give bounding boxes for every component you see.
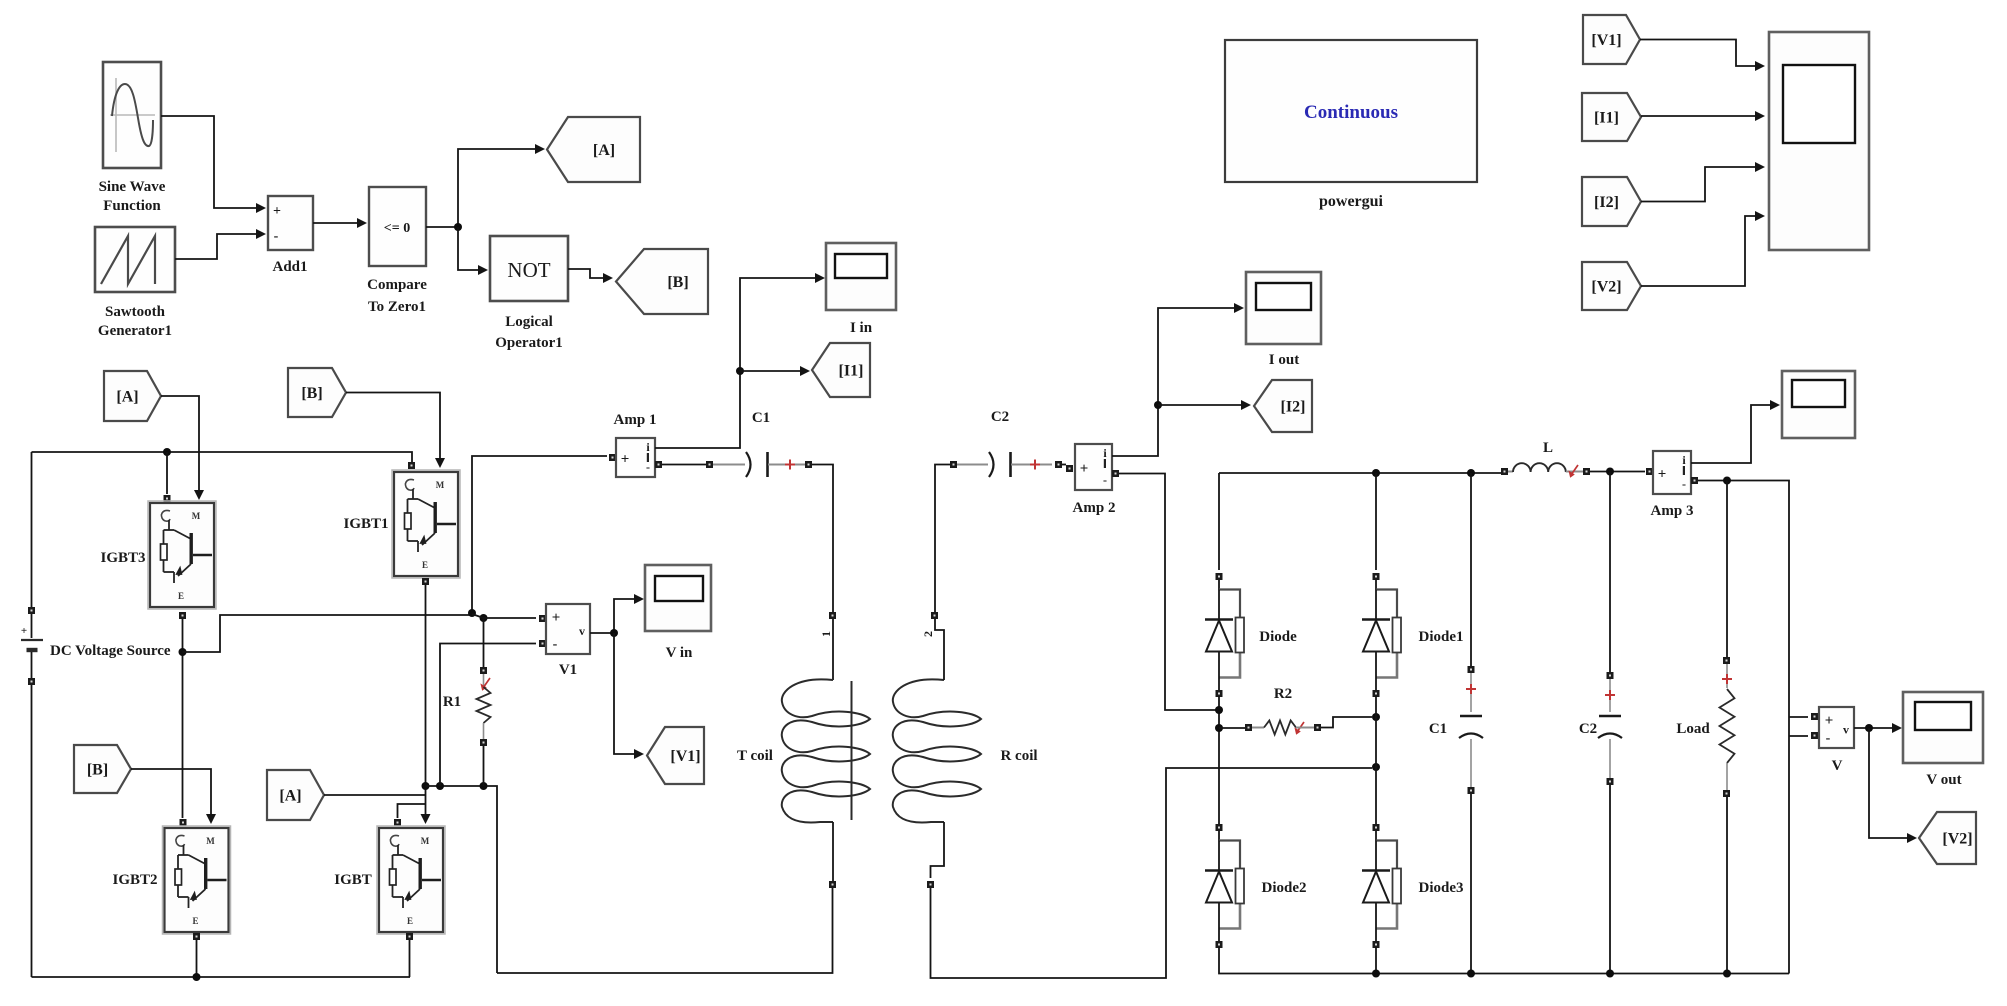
svg-text:2: 2 (921, 631, 935, 637)
node bottom rail C2 (1606, 970, 1614, 978)
wire secondary return to bridge (931, 768, 1373, 978)
wire primary lead (832, 619, 834, 680)
svg-text:[B]: [B] (667, 274, 688, 291)
from tag [I1] top right (1582, 93, 1641, 141)
voltage measurement V (1819, 707, 1854, 774)
svg-text:Diode: Diode (1259, 629, 1297, 645)
node V1 output (610, 629, 618, 637)
scope I out (1246, 272, 1321, 368)
port transformer secondary bottom (927, 881, 934, 888)
inductor L (1501, 440, 1590, 478)
svg-text:-: - (1826, 731, 1831, 746)
svg-text:[V1]: [V1] (1591, 32, 1621, 49)
wire right leg midpoint riser to Amp 1 (472, 456, 607, 613)
svg-text:T coil: T coil (737, 748, 773, 764)
wire Diode3 to bottom rail (1375, 947, 1377, 974)
svg-text:E: E (422, 560, 428, 570)
svg-text:M: M (436, 480, 445, 490)
wire IGBT1 emitter down with gate arrow into IGBT (398, 585, 431, 824)
diode Diode2 (1205, 824, 1307, 948)
port Amp 2 input (1066, 465, 1073, 472)
svg-text:IGBT3: IGBT3 (100, 550, 145, 566)
wire tap jog to V1 plus (472, 614, 536, 618)
current measurement Amp 2 (1073, 444, 1116, 516)
port V minus (1811, 732, 1818, 739)
block Compare To Zero1 (367, 187, 427, 315)
svg-text:[A]: [A] (279, 788, 301, 805)
svg-text:I out: I out (1269, 352, 1299, 368)
svg-text:[I1]: [I1] (839, 363, 864, 380)
svg-text:Amp 1: Amp 1 (614, 412, 657, 428)
wire [A] to IGBT3 gate (161, 396, 204, 500)
port Amp 3 input (1646, 468, 1653, 475)
svg-text:<= 0: <= 0 (384, 221, 410, 236)
svg-text:C2: C2 (991, 409, 1009, 425)
resistor R1 (443, 618, 491, 786)
wire DC positive rail (32, 452, 413, 462)
svg-text:1: 1 (819, 631, 833, 637)
wire secondary top lead (935, 619, 944, 680)
wire Amp 3 i output to scope (1691, 400, 1780, 463)
svg-text:R2: R2 (1274, 686, 1292, 702)
port Amp 1 input (609, 454, 616, 461)
svg-text:R coil: R coil (1000, 748, 1037, 764)
wire rail corner down to Diode (1218, 473, 1220, 570)
port IGBT emitter (406, 933, 413, 940)
svg-text:R1: R1 (443, 694, 461, 710)
from tag [B] to IGBT1 gate (288, 368, 346, 417)
wire Add1 to Compare To Zero1 (313, 218, 367, 228)
svg-text:V out: V out (1926, 772, 1961, 788)
block Logical Operator1 NOT (490, 236, 568, 351)
svg-text:-: - (553, 637, 558, 652)
wire Amp 2 i output to I out scope (1112, 303, 1244, 456)
svg-text:M: M (192, 511, 201, 521)
svg-text:Diode2: Diode2 (1262, 880, 1307, 896)
port IGBT1 collector (408, 462, 415, 469)
svg-text:Load: Load (1676, 721, 1710, 737)
wire V1 minus to node row (440, 644, 536, 787)
wire bottom DC return rail (32, 940, 411, 977)
svg-text:Operator1: Operator1 (495, 335, 562, 351)
port IGBT1 emitter (422, 578, 429, 585)
wire [V1] to Scope input 1 (1640, 40, 1765, 72)
node Diode bottom junction (1215, 706, 1223, 714)
svg-text:+: + (273, 204, 281, 219)
node IGBT1 emitter to measurement row (422, 782, 430, 790)
svg-text:Add1: Add1 (272, 259, 307, 275)
wire L to Amp 3 (1590, 471, 1645, 473)
scope V in (645, 565, 711, 661)
svg-text:Continuous: Continuous (1304, 102, 1398, 123)
goto tag [I1] (812, 343, 870, 397)
wire V output to goto [V2] (1869, 728, 1917, 843)
wire [I2] to Scope input 3 (1641, 162, 1765, 202)
wire bridge top rail (1219, 472, 1501, 474)
node midpoint riser (468, 609, 476, 617)
wire left leg midpoint to V1 (183, 615, 473, 652)
svg-text:E: E (192, 916, 198, 926)
wire C1 to transformer primary (812, 465, 833, 613)
svg-text:[A]: [A] (116, 389, 138, 406)
svg-text:powergui: powergui (1319, 193, 1384, 210)
diode Diode1 (1362, 573, 1464, 697)
svg-text:[V2]: [V2] (1942, 831, 1972, 848)
node bottom rail Diode3 (1372, 970, 1380, 978)
svg-text:[I2]: [I2] (1594, 194, 1619, 211)
wire primary return (832, 822, 834, 881)
svg-text:[V2]: [V2] (1591, 279, 1621, 296)
goto tag [V1] (647, 727, 704, 784)
node rail to IGBT3 (163, 448, 171, 456)
svg-text:-: - (1682, 477, 1686, 491)
battery DC Voltage Source (21, 452, 171, 977)
wire Amp 2 output to bridge node (1119, 474, 1219, 711)
capacitor C2 filter (1579, 472, 1622, 974)
svg-text:IGBT1: IGBT1 (343, 516, 388, 532)
svg-text:-: - (274, 229, 279, 244)
wire node to Logical Operator1 input (458, 227, 488, 275)
goto tag [B] upper (616, 249, 708, 314)
block Scope multi-input (1769, 32, 1869, 250)
svg-text:C1: C1 (1429, 721, 1447, 737)
block powergui Continuous (1225, 40, 1477, 210)
svg-text:I in: I in (850, 320, 873, 336)
transistor IGBT1 (343, 470, 460, 578)
svg-text:M: M (421, 836, 430, 846)
node I in tap (736, 367, 744, 375)
from tag [V1] top right (1583, 15, 1640, 64)
transistor IGBT (334, 826, 445, 934)
wire secondary to C2 (935, 465, 950, 613)
wire primary bottom loop (497, 888, 833, 973)
node R1 bottom column (480, 782, 488, 790)
transistor IGBT2 (112, 826, 230, 934)
node left leg midpoint (179, 648, 187, 656)
from tag [I2] top right (1582, 177, 1641, 226)
port Amp 1 output (655, 461, 662, 468)
from tag [V2] top right (1582, 262, 1641, 310)
svg-text:E: E (178, 591, 184, 601)
node V output (1865, 724, 1873, 732)
port IGBT2 collector (180, 819, 187, 826)
wire [A] into IGBT gate line (324, 794, 426, 796)
node bottom rail Load (1723, 970, 1731, 978)
port V1 plus (539, 615, 546, 622)
from tag [B] to IGBT2 gate (74, 745, 131, 793)
port IGBT3 emitter (179, 612, 186, 619)
port IGBT3 collector (164, 495, 171, 502)
diode Diode (1205, 573, 1297, 697)
svg-text:Logical: Logical (505, 314, 553, 330)
scope I in (826, 243, 896, 336)
transistor IGBT3 (100, 501, 216, 609)
svg-text:Diode3: Diode3 (1419, 880, 1464, 896)
from tag [A] to IGBT gate (267, 770, 324, 820)
port V plus (1811, 713, 1818, 720)
capacitor C2 series (950, 409, 1062, 477)
node Load top (1723, 477, 1731, 485)
svg-text:DC Voltage Source: DC Voltage Source (50, 643, 171, 659)
svg-text:v: v (1843, 723, 1849, 737)
port transformer primary bottom (829, 881, 836, 888)
svg-text:Compare: Compare (367, 277, 427, 293)
svg-text:V in: V in (666, 645, 693, 661)
node bottom rail C1 (1467, 970, 1475, 978)
svg-text:IGBT2: IGBT2 (112, 872, 157, 888)
wire [V2] to Scope input 4 (1641, 211, 1765, 286)
wire Sine Wave to Add1 + input (161, 116, 266, 213)
goto tag [I2] (1254, 380, 1312, 432)
wire secondary bottom return (931, 822, 945, 878)
wire tap to goto [I2] (1158, 400, 1251, 410)
svg-text:Sawtooth: Sawtooth (105, 304, 166, 320)
current measurement Amp 3 (1651, 451, 1694, 519)
svg-text:Amp 2: Amp 2 (1073, 500, 1116, 516)
svg-text:Amp 3: Amp 3 (1651, 503, 1694, 519)
capacitor C1 series (662, 410, 812, 477)
wire measurement node row (426, 786, 498, 973)
node R1 top tap (480, 614, 488, 622)
block Add1 sum (268, 196, 313, 275)
wire V1 output to goto [V1] (614, 633, 644, 759)
wire rail drop to IGBT3 collector (166, 452, 168, 494)
wire Compare output to node and Goto [A] (426, 144, 545, 227)
svg-text:+: + (21, 625, 27, 637)
block Sawtooth Generator1 source (95, 227, 175, 339)
svg-text:Diode1: Diode1 (1419, 629, 1464, 645)
wire [B] to IGBT2 gate (131, 769, 216, 824)
svg-text:[I1]: [I1] (1594, 110, 1619, 127)
svg-text:-: - (1103, 473, 1107, 487)
wire bridge bottom rail (1219, 947, 1789, 974)
port transformer primary 1 (819, 612, 836, 637)
scope V out (1903, 692, 1983, 788)
node V1 minus column (436, 782, 444, 790)
voltage measurement V1 (546, 604, 590, 678)
current measurement Amp 1 (614, 412, 657, 477)
wire Amp 3 output bus (1698, 481, 1789, 974)
svg-text:[A]: [A] (593, 142, 615, 159)
wire [I1] to Scope input 2 (1641, 111, 1765, 121)
wire NOT output to Goto [B] (568, 269, 613, 283)
svg-text:+: + (552, 610, 561, 626)
block Sine Wave Function source (99, 62, 166, 214)
wire V minus stub (1789, 735, 1808, 737)
svg-text:V1: V1 (559, 662, 577, 678)
svg-text:IGBT: IGBT (334, 872, 372, 888)
svg-text:Function: Function (103, 198, 161, 214)
port V1 minus (539, 640, 546, 647)
svg-text:[B]: [B] (301, 385, 322, 402)
svg-text:C2: C2 (1579, 721, 1597, 737)
svg-text:L: L (1543, 440, 1553, 456)
svg-text:E: E (407, 916, 413, 926)
node after Compare To Zero1 (454, 223, 462, 231)
wire Amp 1 i output to I in scope (655, 273, 825, 448)
wire V1 output to V in scope (590, 594, 644, 633)
node R2 left junction (1215, 724, 1223, 732)
goto tag [A] upper (547, 117, 640, 182)
port Amp 2 output (1112, 470, 1119, 477)
svg-text:+: + (621, 452, 630, 468)
svg-text:Generator1: Generator1 (98, 323, 172, 339)
scope output current (1782, 371, 1855, 438)
node bottom rail IGBT2 (193, 973, 201, 981)
goto tag [V2] (1919, 812, 1976, 864)
svg-text:Sine Wave: Sine Wave (99, 179, 166, 195)
node C2 filter top (1606, 468, 1614, 476)
svg-text:NOT: NOT (507, 258, 550, 282)
diode Diode3 (1362, 824, 1464, 948)
inductor R coil secondary winding (893, 679, 1038, 822)
svg-text:V: V (1832, 758, 1843, 774)
node C1 filter top (1467, 469, 1475, 477)
svg-text:-: - (646, 460, 650, 474)
port IGBT2 emitter (193, 933, 200, 940)
svg-text:To Zero1: To Zero1 (368, 299, 426, 315)
node Diode1 top rail (1372, 469, 1380, 477)
wire Diode cathode column (1218, 696, 1220, 824)
node secondary return junction (1372, 763, 1380, 771)
inductor T coil primary winding (737, 679, 870, 822)
wire rail drop to Diode1 (1375, 473, 1377, 570)
resistor R2 (1219, 686, 1321, 735)
wire [B] to IGBT1 gate (346, 393, 445, 469)
wire V plus stub (1789, 716, 1808, 718)
svg-text:[B]: [B] (87, 762, 108, 779)
from tag [A] to IGBT3 gate (104, 371, 161, 421)
wire IGBT3 emitter down to IGBT2 (182, 619, 184, 818)
svg-text:M: M (206, 836, 215, 846)
resistor Load (1676, 481, 1734, 974)
svg-text:[I2]: [I2] (1281, 399, 1306, 416)
port transformer secondary 2 (921, 612, 938, 637)
node Diode1 bottom junction (1372, 713, 1380, 721)
svg-text:+: + (1658, 467, 1667, 483)
wire C2 to Amp 2 (1062, 464, 1066, 466)
wire R2 to Diode1 column (1321, 717, 1372, 728)
node I out tap (1154, 401, 1162, 409)
wire tap to goto [I1] (740, 366, 810, 376)
wire Sawtooth to Add1 - input (175, 229, 266, 259)
svg-text:C1: C1 (752, 410, 770, 426)
svg-text:+: + (1080, 461, 1089, 477)
wire Diode1 cathode column (1375, 696, 1377, 824)
svg-text:+: + (1825, 713, 1834, 729)
port Amp 3 output (1691, 477, 1698, 484)
svg-text:v: v (579, 624, 585, 638)
wire V output to V out scope (1854, 723, 1902, 733)
svg-text:[V1]: [V1] (670, 748, 700, 765)
capacitor C1 filter (1429, 473, 1483, 974)
port IGBT collector (394, 819, 401, 826)
